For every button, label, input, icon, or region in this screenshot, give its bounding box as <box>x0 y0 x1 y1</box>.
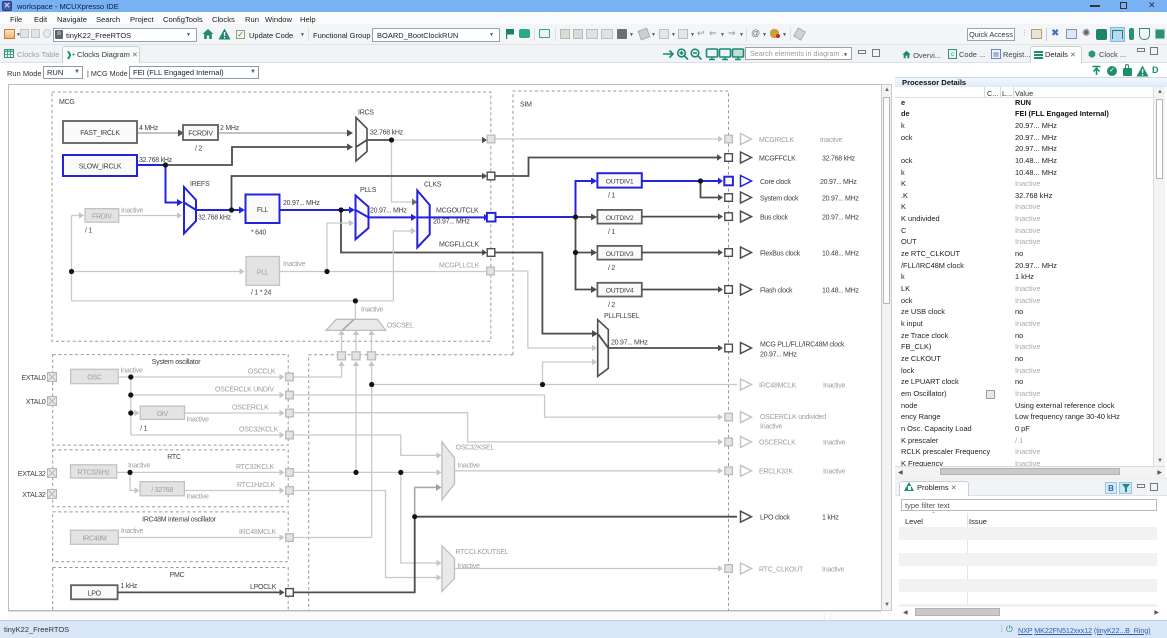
svg-text:RTC: RTC <box>167 454 181 461</box>
wire into DIV <box>131 410 140 416</box>
node IRC48MCLK branch at vertical <box>369 382 374 387</box>
wire MCGPLLCLK to PLLFLLSEL input2 (inactive) <box>495 271 598 351</box>
svg-text:Inactive: Inactive <box>128 463 150 470</box>
svg-text:20.97... MHz: 20.97... MHz <box>611 340 648 347</box>
svg-text:20.97... MHz: 20.97... MHz <box>822 195 859 202</box>
wire IRCS down to CLKS input1 <box>392 140 418 206</box>
node OSC output <box>128 374 133 379</box>
PMC dashed box <box>53 568 289 614</box>
svg-text:PMC: PMC <box>170 572 185 579</box>
wire ext ref horizontal (OSCSEL to left) <box>72 301 394 314</box>
wire LPO clock path in SIM <box>294 517 737 593</box>
port OSCERCLK UNDIV <box>286 391 294 399</box>
wire FAST_IRCLK to FCRDIV, 4 MHz <box>137 125 184 137</box>
quick access <box>967 28 1015 41</box>
svg-text:PLLS: PLLS <box>360 187 377 194</box>
wire LPO output <box>118 584 285 596</box>
wire RTC1HzCLK to RTCCLKOUTSEL input2 <box>294 491 442 581</box>
svg-text:Bus clock: Bus clock <box>760 214 788 221</box>
svg-text:Core clock: Core clock <box>760 179 791 186</box>
home <box>202 28 214 40</box>
wire blue to IREFS input1 <box>166 165 184 206</box>
svg-text:/ 1: / 1 <box>85 228 92 235</box>
wire IRC48MCLK row <box>118 529 284 541</box>
wire PLL output up to PLLS input2 <box>327 220 354 272</box>
node LPO branch <box>412 514 417 519</box>
node PLL output branch <box>324 269 329 274</box>
svg-text:20.97... MHz: 20.97... MHz <box>433 219 470 226</box>
mux OSCSEL (inactive, inputs at bottom) <box>326 319 414 330</box>
wire FLL output to PLLS input1 <box>280 207 356 214</box>
port MCGIRCLK <box>487 135 495 143</box>
svg-text:Inactive: Inactive <box>121 528 143 535</box>
input pad EXTAL0 <box>21 373 56 383</box>
svg-text:4 MHz: 4 MHz <box>139 125 159 132</box>
svg-text:OSC32KSEL: OSC32KSEL <box>456 445 495 452</box>
svg-text:32.768 kHz: 32.768 kHz <box>822 155 856 162</box>
svg-text:IRCS: IRCS <box>358 110 374 117</box>
wire RTC32kHz output <box>117 471 130 473</box>
port MCGFFCLK <box>487 172 495 180</box>
divider OUTDIV2 / 1 <box>597 210 641 236</box>
project combo <box>53 28 197 42</box>
wire OSCCLK to OSCSEL input1 <box>294 368 342 377</box>
svg-text:Flash clock: Flash clock <box>760 287 793 294</box>
wire OSCERCLK UNDIV row <box>131 387 285 399</box>
node ext ref to PLL <box>69 269 74 274</box>
wire OSC output <box>118 376 131 378</box>
wire RTC32KCLK row <box>130 464 285 476</box>
svg-text:1 kHz: 1 kHz <box>822 515 839 522</box>
node RTCCLKOUTSEL tap <box>398 470 403 475</box>
wire OUTDIV3 output (FlexBus clock) <box>642 249 723 255</box>
node OSCERCLK UNDIV branch <box>128 392 133 397</box>
svg-text:LPO clock: LPO clock <box>760 515 790 522</box>
svg-text:Inactive: Inactive <box>187 417 209 424</box>
component PLL / 1 * 24 (inactive) <box>246 257 305 297</box>
update code <box>236 30 245 39</box>
wire RTC_CLKOUT output <box>455 565 724 571</box>
wire OSCSEL output up <box>354 301 356 319</box>
svg-text:20.97... MHz: 20.97... MHz <box>760 352 797 359</box>
component RTC32kHz (inactive) <box>71 463 151 479</box>
wire OUTDIV4 output (Flash clock) <box>642 286 723 292</box>
svg-text:Inactive: Inactive <box>121 208 143 215</box>
wire FCRDIV to IRCS input1, 2 MHz <box>218 125 353 137</box>
svg-text:EXTAL0: EXTAL0 <box>21 375 45 382</box>
svg-text:1 kHz: 1 kHz <box>120 583 137 590</box>
tab row background <box>895 45 1167 63</box>
mux RTCCLKOUTSEL (inactive) <box>442 546 509 592</box>
wire FRDIV input from ext ref <box>72 212 85 218</box>
port+arrow MCG PLL/FLL/IRC48M clock <box>725 342 845 359</box>
svg-text:MCGPLLCLK: MCGPLLCLK <box>439 263 480 270</box>
svg-text:Inactive: Inactive <box>283 261 305 268</box>
svg-text:PLLFLLSEL: PLLFLLSEL <box>604 313 640 320</box>
svg-text:FCRDIV: FCRDIV <box>188 130 213 137</box>
svg-text:10.48... MHz: 10.48... MHz <box>822 250 859 257</box>
svg-text:20.97... MHz: 20.97... MHz <box>822 214 859 221</box>
component IRC48M (inactive) <box>71 528 144 544</box>
input pad EXTAL32 <box>18 469 57 479</box>
port MCGPLLCLK <box>487 267 495 275</box>
functional group combo <box>372 28 500 42</box>
svg-text:Inactive: Inactive <box>823 440 845 447</box>
svg-text:MCG: MCG <box>59 99 75 106</box>
node FLL output branch <box>338 207 343 212</box>
port+arrow Core clock <box>724 176 857 187</box>
svg-text:CLKS: CLKS <box>424 182 442 189</box>
wire MCGIRCLK inactive to MCG port <box>392 137 488 143</box>
port+arrow MCGFFCLK out <box>725 152 856 163</box>
svg-text:RTCCLKOUTSEL: RTCCLKOUTSEL <box>456 549 509 556</box>
node IRC48MCLK to PLLFLLSEL <box>540 382 545 387</box>
wire MCGFLLCLK to PLLFLLSEL input1 <box>495 253 598 338</box>
perspective icons <box>1031 29 1042 39</box>
svg-text:/ 1 * 24: / 1 * 24 <box>251 290 272 297</box>
svg-text:/ 2: / 2 <box>195 146 202 153</box>
wire OSCCLK row <box>131 369 285 381</box>
warning <box>218 28 231 40</box>
port LPOCLK <box>286 589 294 597</box>
wire PLLS output to CLKS input2 <box>369 214 418 221</box>
component LPO <box>71 583 138 599</box>
horizontal scroll strip <box>8 611 881 619</box>
wire OSCSEL output to CLKS input3 <box>393 228 416 301</box>
svg-text:PLL: PLL <box>257 269 269 276</box>
wire IRCS output <box>367 139 392 141</box>
wire down into /32768 <box>130 472 140 493</box>
svg-text:32.768 kHz: 32.768 kHz <box>198 215 232 222</box>
clocks diagram tab (selected) <box>62 46 140 64</box>
svg-text:OUTDIV1: OUTDIV1 <box>606 179 634 186</box>
wire OUTDIV2 output (Bus clock) <box>642 213 723 219</box>
mux PLLS <box>356 187 408 239</box>
wire to OUTDIV3 <box>576 249 598 256</box>
svg-text:OUTDIV3: OUTDIV3 <box>606 251 634 258</box>
svg-text:FLL: FLL <box>257 207 269 214</box>
svg-text:FAST_IRCLK: FAST_IRCLK <box>80 130 120 137</box>
svg-text:System clock: System clock <box>760 195 799 202</box>
svg-text:2 MHz: 2 MHz <box>220 125 240 132</box>
svg-text:32.768 kHz: 32.768 kHz <box>139 157 173 164</box>
OSCSEL input arrows <box>338 330 374 352</box>
svg-text:Inactive: Inactive <box>822 566 844 573</box>
svg-text:/ 32768: / 32768 <box>151 487 173 494</box>
wire SLOW_IRCLK output, 32.768 kHz <box>137 157 173 165</box>
wire PLLFLLSEL output (MCG PLL/FLL/IRC48M clock) <box>608 345 723 351</box>
System oscillator dashed box <box>53 355 289 446</box>
port+arrow System clock <box>725 192 860 203</box>
node RTC32kHz branch <box>127 470 132 475</box>
svg-text:Inactive: Inactive <box>823 382 845 389</box>
port+arrow Flash clock <box>725 284 860 295</box>
mux PLLFLLSEL <box>598 313 649 376</box>
input pad XTAL32 <box>22 490 56 500</box>
svg-text:/ 2: / 2 <box>608 302 615 309</box>
svg-text:MCGIRCLK: MCGIRCLK <box>759 137 795 144</box>
arrow LPO clock out <box>741 511 840 522</box>
port+arrow Bus clock <box>725 211 860 222</box>
svg-text:LPO: LPO <box>88 591 102 598</box>
wire LPO branch to OSC32KSEL input3 <box>415 484 442 517</box>
wire to IRCS input2 <box>166 144 354 166</box>
sash <box>895 477 1167 480</box>
svg-text:OSCERCLK undivided: OSCERCLK undivided <box>760 414 826 421</box>
svg-text:OSCERCLK: OSCERCLK <box>232 405 269 412</box>
flag + bubble <box>506 29 514 39</box>
svg-text:OUTDIV4: OUTDIV4 <box>606 288 634 295</box>
mux OSC32KSEL (inactive) <box>442 442 495 500</box>
arrow IRC48MCLK out <box>741 379 846 390</box>
svg-text:10.48... MHz: 10.48... MHz <box>822 287 859 294</box>
wire blue up to OUTDIV1 <box>576 178 598 218</box>
save (disabled) <box>20 29 29 38</box>
svg-text:EXTAL32: EXTAL32 <box>18 471 46 478</box>
port RTC32KCLK <box>286 469 294 477</box>
problems horizontal scrollbar <box>895 607 1167 618</box>
node DIV branch <box>128 410 133 415</box>
svg-text:32.768 kHz: 32.768 kHz <box>370 130 404 137</box>
wire PLL output to MCGPLLCLK port and PLLFLLSEL <box>280 271 487 273</box>
port RTC1HzCLK <box>286 487 294 495</box>
gray tool icons row <box>560 29 570 39</box>
wire RTC32K down to RTCCLKOUTSEL input1 <box>401 472 442 566</box>
svg-text:XTAL0: XTAL0 <box>26 399 46 406</box>
divider FRDIV / 1 (inactive) <box>85 208 143 235</box>
SIM dashed group box (L-shape) <box>309 91 729 614</box>
mux CLKS <box>417 182 479 248</box>
svg-text:/ 2: / 2 <box>608 265 615 272</box>
port+arrow OSCERCLK <box>725 436 846 447</box>
svg-text:OSCERCLK: OSCERCLK <box>759 440 796 447</box>
Processor Details header <box>895 77 1167 87</box>
RTC dashed box <box>53 450 289 507</box>
svg-text:/ 1: / 1 <box>608 229 615 236</box>
wire IRC48MCLK across (inactive) <box>294 368 737 538</box>
wire MCGFLLCLK from node down to MCG port <box>341 210 487 256</box>
wire System clock <box>701 181 724 201</box>
wire OSCERCLK row <box>185 405 285 417</box>
details horizontal scrollbar <box>895 466 1165 477</box>
svg-text:LPOCLK: LPOCLK <box>250 584 277 591</box>
wire OSC vertical distribution <box>130 377 132 435</box>
svg-text:FRDIV: FRDIV <box>92 213 112 220</box>
svg-text:MCGFFCLK: MCGFFCLK <box>759 155 796 162</box>
svg-text:System oscillator: System oscillator <box>152 359 202 366</box>
divider DIV / 1 (inactive) <box>140 406 209 433</box>
port OSC32KCLK <box>286 431 294 439</box>
wire OSC32KCLK row <box>131 427 285 439</box>
vertical scrollbar of canvas <box>881 84 892 611</box>
divider / 32768 (inactive) <box>140 482 209 501</box>
svg-text:RTC32KCLK: RTC32KCLK <box>236 464 275 471</box>
wire RTC1HzCLK row <box>184 482 284 494</box>
wire MCGIRCLK across SIM (inactive) <box>495 136 723 142</box>
wire OUTDIV1 output (Core clock) <box>642 178 723 185</box>
port OSCSEL input3 on SIM boundary <box>368 352 376 360</box>
divider OUTDIV1 / 1 <box>597 173 641 199</box>
wire OSCERCLK to SIM output <box>294 413 723 445</box>
svg-text:Inactive: Inactive <box>187 494 209 501</box>
wire IREFS output to FLL <box>196 207 245 214</box>
svg-text:OSC32KCLK: OSC32KCLK <box>239 427 279 434</box>
svg-text:20.97... MHz: 20.97... MHz <box>283 200 320 207</box>
wire PLL input from ext ref <box>72 268 245 274</box>
svg-text:IRC48M internal oscillator: IRC48M internal oscillator <box>142 517 217 524</box>
port+arrow OSCERCLK undivided <box>725 412 826 431</box>
details rows <box>895 97 1153 467</box>
svg-text:MCG PLL/FLL/IRC48M clock: MCG PLL/FLL/IRC48M clock <box>760 342 845 349</box>
divider OUTDIV4 / 2 <box>597 283 641 309</box>
svg-text:IREFS: IREFS <box>190 181 210 188</box>
clocks table tab <box>2 47 62 63</box>
node FLL reference branch <box>229 207 234 212</box>
svg-text:DIV: DIV <box>157 411 169 418</box>
port OSCERCLK <box>286 409 294 417</box>
svg-text:SIM: SIM <box>520 102 532 109</box>
port MCGOUTCLK (blue) <box>487 213 496 222</box>
port+arrow RTC_CLKOUT <box>725 563 845 574</box>
panel toolbar icons <box>1091 65 1102 76</box>
wire to OUTDIV2 <box>576 214 598 221</box>
IRC48M internal oscillator dashed box <box>53 512 289 562</box>
port+arrow MCGIRCLK out <box>725 134 843 145</box>
column headers <box>895 87 1153 98</box>
svg-text:RTC_CLKOUT: RTC_CLKOUT <box>759 566 804 573</box>
svg-text:OSCSEL: OSCSEL <box>387 323 414 330</box>
component SLOW_IRCLK <box>63 155 137 176</box>
svg-text:/ 1: / 1 <box>140 426 147 433</box>
node IRCS output branch <box>389 137 394 142</box>
svg-text:* 640: * 640 <box>251 230 266 237</box>
divider OUTDIV3 / 2 <box>597 246 641 272</box>
node OSCSEL output <box>353 298 358 303</box>
port OSCSEL input1 on SIM boundary <box>338 352 346 360</box>
MCG dashed group box <box>52 92 491 341</box>
filter text box <box>901 499 1157 511</box>
port OSCCLK <box>286 373 294 381</box>
selected Details tab <box>1030 46 1082 64</box>
svg-text:Inactive: Inactive <box>458 463 480 470</box>
wire OSCERCLK UNDIV to SIM output <box>294 395 723 420</box>
svg-text:Inactive: Inactive <box>361 307 383 314</box>
svg-text:Inactive: Inactive <box>121 368 143 375</box>
svg-text:OUTDIV2: OUTDIV2 <box>606 215 634 222</box>
wire IRC48MCLK to PLLFLLSEL input3 (inactive) <box>543 359 598 385</box>
wire MCGFFCLK from node up and right to MCG port <box>232 173 488 210</box>
svg-text:IRC48MCLK: IRC48MCLK <box>759 382 797 389</box>
diagram zoom toolbar <box>655 45 895 63</box>
svg-text:OSC: OSC <box>87 375 102 382</box>
svg-text:OSCCLK: OSCCLK <box>248 369 276 376</box>
node core/system branch <box>698 178 703 183</box>
input pad XTAL0 <box>26 397 57 407</box>
svg-text:RTC1HzCLK: RTC1HzCLK <box>237 482 276 489</box>
node OUTDIV feed <box>573 214 578 219</box>
svg-text:ERCLK32K: ERCLK32K <box>759 469 793 476</box>
svg-text:XTAL32: XTAL32 <box>22 492 46 499</box>
component OSC (inactive) <box>71 368 143 384</box>
svg-text:SLOW_IRCLK: SLOW_IRCLK <box>79 163 122 170</box>
component FLL * 640 <box>246 195 321 237</box>
wire RTC32KCLK to OSC32KSEL input2 and OSCSEL input2 <box>294 368 442 476</box>
svg-text:OSCERCLK UNDIV: OSCERCLK UNDIV <box>215 387 274 394</box>
port MCGFLLCLK <box>487 249 495 257</box>
svg-text:/ 1: / 1 <box>608 193 615 200</box>
node OUTDIV3 branch <box>573 250 578 255</box>
component FAST_IRCLK <box>63 121 137 143</box>
new wizard <box>4 29 15 39</box>
svg-text:FlexBus clock: FlexBus clock <box>760 250 801 257</box>
arrows up into OSCSEL ports <box>338 361 374 368</box>
port+arrow FlexBus clock <box>725 247 860 258</box>
wire ext ref vertical (OSCSEL out to FRDIV/PLL) <box>71 216 73 301</box>
svg-text:MCGOUTCLK: MCGOUTCLK <box>436 208 479 215</box>
port+arrow ERCLK32K <box>725 465 846 476</box>
svg-text:20.97... MHz: 20.97... MHz <box>370 208 407 215</box>
port OSCSEL input2 on SIM boundary <box>352 352 360 360</box>
node SLOW_IRCLK branch <box>163 162 168 167</box>
wire CLKS output to MCGOUTCLK port <box>430 214 488 221</box>
node OSCSEL in2 tap <box>353 470 358 475</box>
divider FCRDIV / 2 <box>183 125 218 153</box>
svg-text:20.97... MHz: 20.97... MHz <box>820 179 857 186</box>
wire OSC32KCLK to OSC32KSEL input1 <box>294 435 442 459</box>
mux IRCS <box>356 110 404 162</box>
wire down to OUTDIV3 and OUTDIV4 <box>576 217 598 293</box>
problems table <box>931 511 936 518</box>
svg-text:RTC32kHz: RTC32kHz <box>78 470 111 477</box>
svg-text:IRC48MCLK: IRC48MCLK <box>239 529 277 536</box>
wire MCGFFCLK across SIM <box>495 154 722 176</box>
mux IREFS <box>184 181 232 234</box>
wire ERCLK32K output <box>455 468 724 474</box>
svg-text:Inactive: Inactive <box>823 469 845 476</box>
svg-text:MCGFLLCLK: MCGFLLCLK <box>439 242 479 249</box>
wire FRDIV output to IREFS input2 <box>119 212 182 218</box>
svg-text:Inactive: Inactive <box>820 137 842 144</box>
svg-text:Inactive: Inactive <box>760 423 782 430</box>
port IRC48MCLK <box>286 534 294 542</box>
svg-text:IRC48M: IRC48M <box>82 536 107 543</box>
details vertical scrollbar <box>1153 87 1165 466</box>
wire MCGOUTCLK blue into SIM <box>496 216 576 218</box>
